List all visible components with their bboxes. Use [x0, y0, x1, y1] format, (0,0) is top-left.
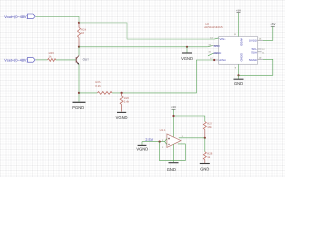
- ground GND (under divider): [200, 164, 210, 172]
- wire opamp V- to ground: [173, 144, 175, 162]
- wire R23 to Q1 base: [56, 59, 76, 61]
- svg-text:VGND: VGND: [116, 115, 128, 120]
- svg-text:VIN+: VIN+: [220, 37, 227, 41]
- svg-text:VGND: VGND: [181, 56, 193, 61]
- wire opamp output: [179, 137, 205, 139]
- wire +5V right to DVDD: [263, 26, 273, 40]
- svg-text:U1.1: U1.1: [160, 128, 166, 132]
- svg-text:SGND: SGND: [249, 58, 257, 62]
- U2 pin 14 VIN+: [210, 36, 226, 41]
- svg-text:GND: GND: [167, 167, 176, 172]
- wire Q1 emitter down: [78, 64, 80, 101]
- resistor R24: [78, 23, 87, 47]
- svg-text:10k: 10k: [207, 125, 212, 129]
- svg-text:AVDD: AVDD: [239, 38, 243, 46]
- svg-text:10: 10: [81, 31, 85, 35]
- svg-text:Vout+(0~48V): Vout+(0~48V): [4, 15, 28, 19]
- node F junction (IC ground): [237, 74, 239, 76]
- resistor R27: [203, 121, 212, 137]
- svg-text:DVDD: DVDD: [249, 39, 257, 43]
- node A junction: [78, 22, 80, 24]
- svg-text:+5V: +5V: [270, 22, 275, 26]
- transistor Q1: [76, 47, 89, 65]
- wire 2.5V to opamp input: [142, 141, 165, 143]
- wire opamp feedback pin: [178, 144, 186, 161]
- svg-text:2.4k: 2.4k: [124, 100, 130, 104]
- U2 pin 13 DVDD: [249, 38, 263, 43]
- svg-text:PGND: PGND: [72, 105, 84, 110]
- ground GND (under IC): [234, 75, 244, 86]
- op-amp U1.1: [160, 128, 184, 149]
- svg-text:+5V: +5V: [236, 8, 241, 12]
- svg-text:GND: GND: [200, 166, 209, 171]
- svg-text:ADS1115IDGS: ADS1115IDGS: [204, 25, 223, 29]
- resistor R26: [120, 93, 130, 112]
- svg-text:DGND: DGND: [239, 53, 243, 61]
- node H junction (output / divider): [204, 137, 206, 139]
- node G junction: [172, 115, 174, 117]
- power +5V (top of IC): [236, 8, 241, 12]
- wire +5V to opamp V+ and divider: [174, 109, 205, 138]
- svg-text:11: 11: [262, 51, 265, 54]
- wire shunt to riser: [112, 60, 214, 93]
- wire SGND to GND below IC: [239, 59, 273, 75]
- node E junction (VGND tap): [186, 46, 188, 48]
- node B junction: [78, 46, 80, 48]
- node C junction (emitter / shunt): [78, 92, 80, 94]
- U2 pin 15 AIN2: [207, 43, 220, 48]
- svg-text:AGND: AGND: [213, 51, 221, 55]
- power +5V (right): [270, 22, 275, 26]
- U2 pin 11 SDA: [251, 50, 265, 54]
- wire node C to shunt: [79, 92, 97, 94]
- ground VGND (2.5V ref): [136, 142, 148, 152]
- svg-text:AIN4: AIN4: [219, 58, 226, 62]
- wire port1 to node A: [36, 16, 79, 23]
- svg-text:2.5V: 2.5V: [145, 138, 153, 142]
- U2 pin 10 SGND: [249, 57, 263, 62]
- U2 pin 16 AGND: [208, 51, 221, 56]
- ground GND (under op-amp): [167, 163, 179, 172]
- svg-text:+5V: +5V: [171, 105, 176, 109]
- svg-text:1k: 1k: [207, 155, 211, 159]
- svg-text:AIN2: AIN2: [214, 44, 221, 48]
- svg-text:VGND: VGND: [136, 146, 148, 151]
- svg-text:16: 16: [208, 51, 211, 54]
- ground VGND (under R26): [116, 112, 128, 119]
- wire port2 to R23: [36, 59, 48, 61]
- power +5V (op-amp): [171, 105, 176, 109]
- node I junction: [159, 141, 161, 143]
- IC U2 body: [204, 22, 257, 64]
- svg-text:0.25: 0.25: [95, 84, 101, 88]
- port P2 Vset+(0~48V): [4, 58, 35, 63]
- resistor R28: [203, 138, 212, 163]
- wire node A to IC pin VIN+: [79, 23, 214, 39]
- svg-text:9: 9: [235, 66, 237, 69]
- wire node B to IC pin AIN2: [79, 46, 207, 48]
- node D junction: [121, 92, 123, 94]
- resistor R23: [48, 51, 56, 61]
- svg-text:11: 11: [234, 33, 237, 36]
- svg-text:GND: GND: [234, 81, 243, 86]
- U2 bottom pin DGND: [235, 53, 244, 75]
- resistor R25 (shunt 0.25): [95, 80, 112, 94]
- svg-text:Vset+(0~48V): Vset+(0~48V): [4, 59, 28, 63]
- wire feedback loop bottom: [160, 142, 186, 161]
- svg-text:OUT: OUT: [83, 58, 90, 62]
- ground PGND: [72, 102, 85, 110]
- U2 pin 12 SCL: [251, 47, 265, 51]
- port P1 Vout+(0~48V): [4, 14, 35, 19]
- ground VGND (mid): [181, 47, 193, 61]
- U2 top pin AVDD: [234, 13, 244, 46]
- svg-text:12: 12: [262, 48, 265, 51]
- net label 2.5V: [145, 138, 153, 142]
- U2 pin 17 AIN4: [210, 57, 226, 62]
- svg-text:2: 2: [162, 146, 164, 149]
- svg-text:SDA: SDA: [251, 50, 257, 54]
